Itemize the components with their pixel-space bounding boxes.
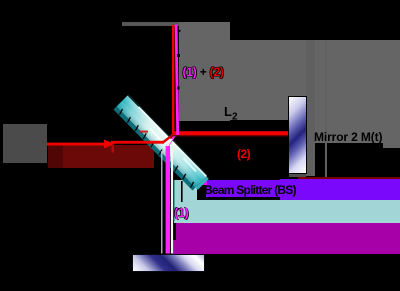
- beam splitter face shading overlay: [117, 96, 207, 188]
- beam up magenta line: [176, 25, 178, 136]
- black glitch dot upper: [178, 30, 181, 32]
- label Mirror 2 M(t): [314, 130, 382, 144]
- beam to mirror 2: [174, 131, 289, 135]
- beam splitter lower side face: [114, 107, 196, 191]
- gray panel behind Mirror 2 text: [327, 40, 383, 143]
- laser beam left segment: [47, 143, 112, 146]
- beam splitter top edge dark outline: [128, 95, 207, 176]
- gray panel far right: [383, 40, 400, 148]
- red streak under arrow: [112, 146, 115, 153]
- gray strip right of mirror 2: [306, 40, 315, 176]
- gray patch under mirror 2: [289, 174, 307, 177]
- gray panel above mirror 2: [288, 40, 307, 98]
- beam splitter hatch marks: [120, 109, 194, 188]
- splitter face highlight streak: [184, 158, 197, 172]
- magenta glitch strip above violet band: [201, 180, 207, 185]
- teal glitch line below splitter: [174, 180, 175, 221]
- gray background panel left part: [179, 22, 230, 121]
- beam down faint line: [161, 151, 162, 254]
- black glitch dot mid: [177, 87, 179, 90]
- black glitch dot lower: [177, 54, 180, 57]
- label L2: [224, 104, 238, 123]
- beam down magenta line: [166, 146, 170, 254]
- beam down white line: [171, 149, 173, 254]
- detector: [132, 254, 205, 272]
- gray thin vertical line x325: [325, 40, 327, 177]
- cyan band left block: [174, 180, 197, 223]
- violet band left part: [206, 180, 280, 197]
- dark red glitch line above violet band: [298, 177, 400, 179]
- violet band right part: [280, 179, 400, 201]
- magenta band gap fill: [173, 240, 177, 254]
- cyan band right part: [280, 200, 400, 223]
- laser box: [3, 124, 47, 163]
- L2 dimension line: [176, 121, 288, 132]
- gray column under text Mirror2: [315, 40, 325, 143]
- label Beam Splitter (BS): [204, 183, 296, 197]
- label (1) + (2): [183, 65, 224, 79]
- beam splitter top edge highlight: [139, 107, 207, 177]
- label (2) red: [237, 147, 250, 161]
- dark red block 2: [63, 145, 154, 169]
- laser beam shifted segment: [111, 141, 164, 144]
- magenta band: [176, 223, 400, 254]
- label (1) magenta: [174, 205, 188, 220]
- laser beam arrowhead: [104, 140, 115, 149]
- laser beam glitch step: [164, 134, 175, 142]
- black glitch line on cyan: [181, 181, 183, 202]
- gray background panel right part: [230, 40, 289, 120]
- mirror 2: [288, 96, 307, 174]
- red glitch dash on splitter face: [140, 131, 148, 133]
- mirror 1 gray bar top: [122, 22, 179, 26]
- beam splitter bottom end cap: [196, 177, 209, 190]
- beam up red line: [172, 25, 174, 134]
- beam splitter BS slab face: [117, 96, 207, 188]
- dark red block 1: [48, 145, 63, 168]
- cyan band: [197, 200, 280, 223]
- refracted glitch beams inside splitter: [150, 129, 164, 144]
